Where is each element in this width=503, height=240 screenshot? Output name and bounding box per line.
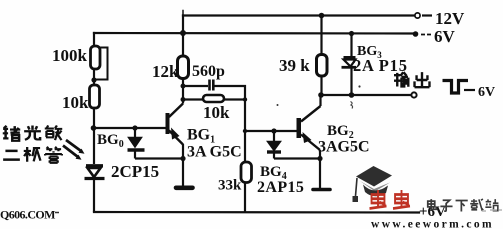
wire between 100k and 10k [93, 69, 95, 85]
node junction below 100k [91, 77, 96, 82]
wire photodiode column [93, 128, 95, 164]
resistor R 33k [241, 162, 252, 183]
watermark 电 vector glyph [428, 199, 437, 209]
label 管 vector glyph [45, 147, 62, 163]
wire coupling vertical down [244, 95, 246, 162]
wire tick above rail corner [182, 11, 184, 16]
speck near left rail end [55, 212, 59, 214]
terminal output circle [411, 92, 416, 97]
svg-text:3AG5C: 3AG5C [318, 139, 370, 156]
transistor BG2 [297, 106, 321, 150]
node emitter junction BG1 [180, 156, 185, 161]
node BG3 output junction [349, 92, 355, 98]
wire base wire to BG1 [94, 127, 166, 129]
transistor BG1 [166, 104, 184, 145]
diode BG4 [267, 131, 281, 159]
speck near coupling [277, 104, 279, 106]
svg-text:6V: 6V [478, 85, 495, 100]
wire BG0 to emitter [135, 157, 183, 159]
node base node of BG1 [91, 125, 97, 131]
wire second line left part [183, 98, 203, 100]
svg-text:100k: 100k [52, 46, 88, 65]
resistor R 10k left [90, 85, 100, 108]
wire BG4 to emitter BG2 [274, 157, 320, 159]
speck near output label [358, 85, 360, 87]
label 二 vector glyph [3, 151, 20, 160]
arrow light ray 2 [63, 146, 78, 158]
node output node [318, 92, 324, 98]
svg-text:3A G5C: 3A G5C [187, 144, 242, 161]
wire second line right part [224, 98, 245, 100]
svg-text:12k: 12k [152, 62, 179, 81]
capacitor 560p [210, 80, 214, 91]
watermark 子 vector glyph [440, 200, 452, 211]
waveform pulse symbol [443, 81, 469, 94]
wire 33k to bottom rail [244, 183, 246, 213]
wire 100k bypass loop [95, 48, 108, 80]
svg-text:6V: 6V [434, 27, 456, 46]
resistor R 12k [178, 56, 189, 79]
wire dash before 12V [422, 14, 432, 16]
watermark 站 vector glyph [485, 199, 498, 211]
wire BG3 stem bottom [350, 69, 352, 96]
wire BG1 emitter down [182, 144, 184, 186]
watermark 下 vector glyph [456, 201, 468, 212]
svg-text:10k: 10k [203, 103, 230, 122]
node BG0 tap on base wire [132, 125, 137, 130]
terminal -12V circle [415, 13, 420, 18]
wire coupling top line to capacitor [183, 85, 208, 87]
resistor R 39k [317, 55, 328, 77]
speck faint marks right [482, 210, 502, 211]
wire dash before 6V [421, 34, 431, 36]
wire rail2 -6V [94, 32, 413, 35]
wire bottom rail +6V [94, 211, 419, 214]
wire 12k top vertical [182, 16, 184, 57]
watermark cap underside sliver [360, 181, 390, 192]
diode BG3 [342, 58, 357, 68]
svg-text:2CP15: 2CP15 [111, 162, 159, 181]
svg-text:560p: 560p [192, 63, 225, 80]
arrow light ray 1 [63, 140, 85, 160]
wire top rail -12V [183, 14, 416, 16]
node coupling right corner [243, 97, 247, 101]
svg-text:2A P15: 2A P15 [353, 56, 408, 75]
ground BG2 [313, 188, 330, 192]
node emitter junction BG2 [317, 156, 322, 161]
wire output line [321, 94, 411, 96]
svg-text:12V: 12V [435, 9, 465, 28]
wire diode to bottom rail [93, 180, 95, 212]
watermark 虫 1 red vector glyph [370, 190, 387, 209]
label 输 vector glyph [394, 72, 408, 87]
label 光 vector glyph [24, 125, 41, 139]
wire BG3 stem top [350, 34, 352, 57]
diode BG0 [128, 128, 145, 159]
watermark cap body [363, 185, 388, 197]
label 锗 (germanium) vector glyph [3, 126, 20, 141]
resistor R 10k coupling [203, 95, 224, 102]
watermark graduation cap board [356, 166, 392, 187]
wire 39k to output node [320, 76, 322, 95]
wire base wire BG2 [245, 130, 297, 132]
svg-text:Q606.COM: Q606.COM [0, 208, 55, 222]
wire left column vertical [93, 33, 95, 46]
wire BG2 collector up [319, 95, 321, 106]
svg-text:10k: 10k [62, 93, 89, 112]
svg-text:www.eeworm.com: www.eeworm.com [371, 219, 494, 230]
wire 10k to base node [93, 108, 95, 128]
diode 2CP15 photodiode [85, 166, 105, 179]
terminal -6V dot [413, 31, 419, 37]
node collector node second tap [181, 97, 186, 102]
watermark 载 vector glyph [470, 199, 483, 211]
wire 39k vertical from top rail [320, 16, 322, 55]
svg-text:BG0: BG0 [97, 132, 124, 150]
resistor R 100k [91, 46, 101, 69]
node BG4 tap [271, 128, 276, 133]
node 39k top on -12V rail [319, 13, 325, 19]
svg-text:39 k: 39 k [279, 56, 310, 75]
ground BG1 [176, 186, 193, 191]
label 极 vector glyph [24, 147, 41, 162]
speck below BG3 [351, 102, 353, 109]
watermark tassel [356, 178, 358, 196]
node 12k to -6V rail junction [180, 30, 186, 36]
wire BG2 emitter down [319, 150, 321, 188]
wire capacitor to right corner [215, 86, 246, 95]
label 敏 vector glyph [45, 125, 62, 140]
watermark 虫 2 red vector glyph [393, 190, 410, 209]
node BG3 top on -6V rail [349, 31, 354, 36]
node base node BG2 / 33k [243, 129, 247, 133]
wire 12k bottom to collector node [182, 79, 184, 104]
label 出 vector glyph [415, 72, 430, 87]
svg-text:33k: 33k [218, 178, 242, 194]
node collector node top tap [181, 84, 186, 89]
label -6V at waveform [464, 89, 475, 91]
svg-text:2AP15: 2AP15 [257, 179, 304, 196]
